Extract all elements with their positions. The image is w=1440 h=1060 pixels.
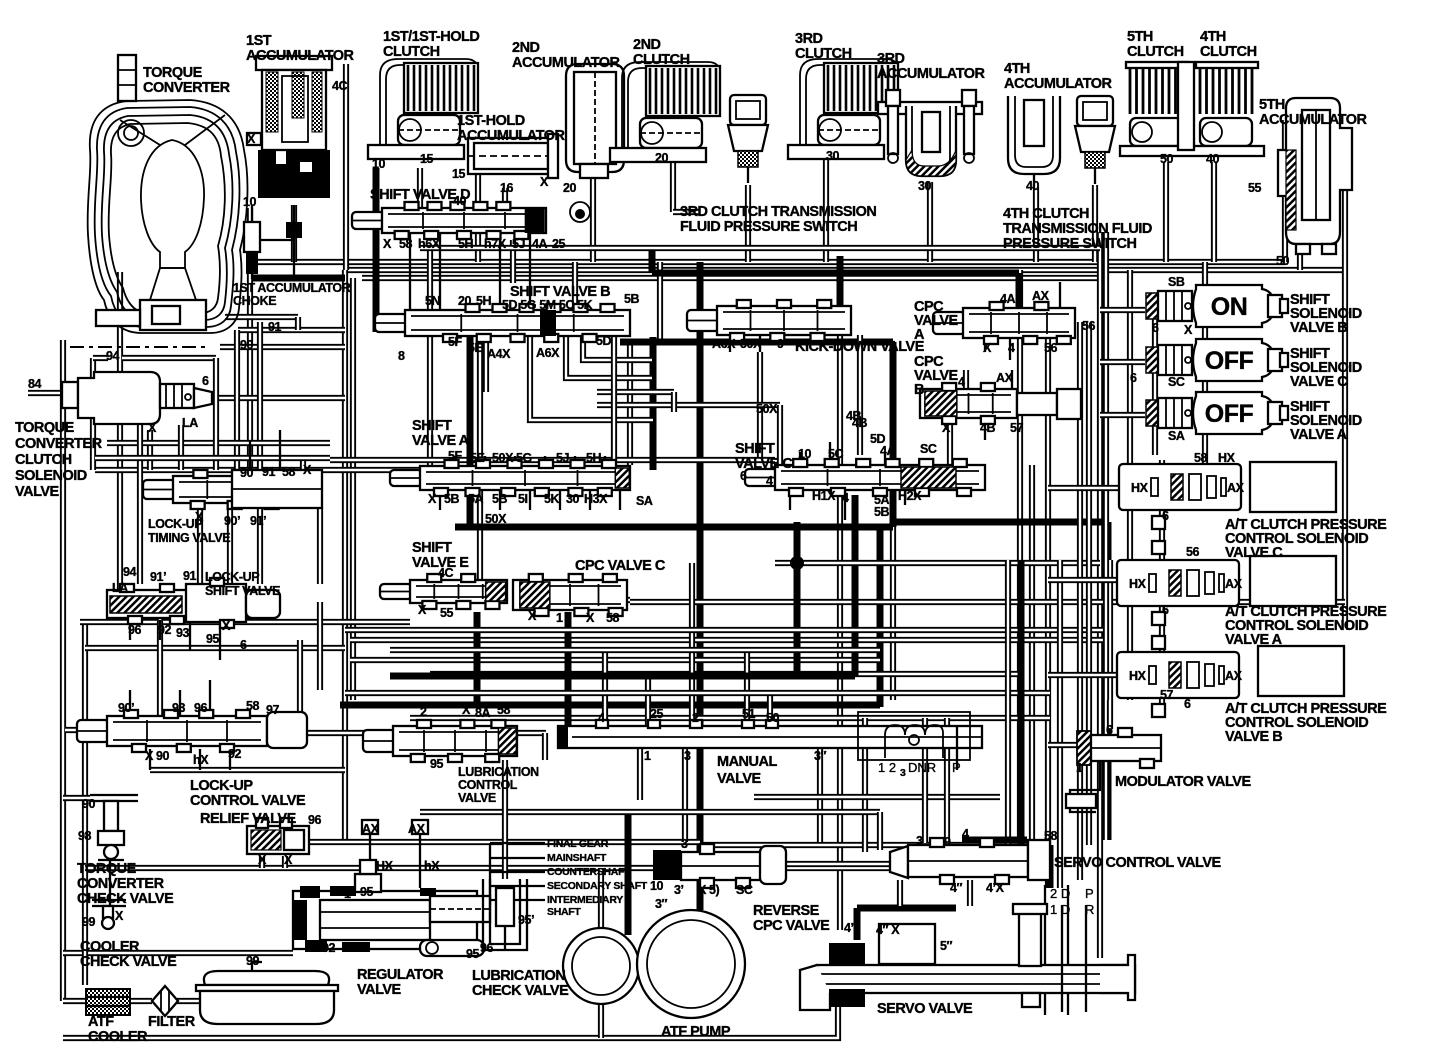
wire <box>350 278 356 700</box>
wire <box>137 423 143 470</box>
wire <box>475 172 481 262</box>
svg-text:84: 84 <box>28 377 42 391</box>
svg-text:h6X: h6X <box>418 237 441 251</box>
svg-text:HX: HX <box>376 859 394 873</box>
svg-text:ACCUMULATOR: ACCUMULATOR <box>457 128 566 144</box>
svg-text:30: 30 <box>918 179 932 193</box>
wire <box>85 865 890 871</box>
svg-text:5D: 5D <box>596 334 612 348</box>
wire <box>499 233 501 310</box>
wire <box>177 998 200 1004</box>
svg-text:VALVE: VALVE <box>458 791 496 805</box>
kick-down valve <box>687 300 851 341</box>
svg-text:3: 3 <box>916 834 923 848</box>
wire <box>829 442 831 465</box>
svg-text:VALVE: VALVE <box>717 771 762 787</box>
wire <box>1100 307 1145 313</box>
5th clutch <box>1126 62 1188 146</box>
wire <box>1017 270 1023 845</box>
svg-text:96: 96 <box>194 701 208 715</box>
svg-text:2: 2 <box>692 711 699 725</box>
wire <box>122 355 216 361</box>
reverse CPC valve <box>653 844 786 888</box>
svg-text:58: 58 <box>1194 451 1208 465</box>
wire <box>350 637 1110 643</box>
wire <box>295 317 301 330</box>
svg-text:HX: HX <box>1129 577 1147 591</box>
svg-text:25: 25 <box>552 237 566 251</box>
svg-text:REGULATOR: REGULATOR <box>357 967 444 983</box>
wire <box>137 470 143 584</box>
wire <box>409 233 411 310</box>
junction elbow 20 <box>570 202 590 222</box>
wire <box>65 727 107 733</box>
svg-text:LOCK-UP: LOCK-UP <box>190 778 253 794</box>
svg-text:20: 20 <box>458 294 472 308</box>
svg-text:SC: SC <box>1168 375 1185 389</box>
svg-text:ACCUMULATOR: ACCUMULATOR <box>1004 76 1113 92</box>
wire <box>620 339 893 346</box>
svg-text:HX: HX <box>1131 481 1149 495</box>
svg-text:4: 4 <box>1008 341 1015 355</box>
wire <box>1103 232 1109 840</box>
wire <box>390 647 880 653</box>
wire <box>179 690 181 716</box>
wire <box>857 905 956 912</box>
svg-text:4B: 4B <box>852 416 868 430</box>
svg-text:90: 90 <box>240 466 254 480</box>
svg-text:51: 51 <box>742 707 756 721</box>
svg-text:2ND: 2ND <box>512 40 540 56</box>
svg-text:1 2: 1 2 <box>878 760 896 775</box>
svg-text:1: 1 <box>1076 761 1083 775</box>
svg-text:TIMING VALVE: TIMING VALVE <box>148 531 230 545</box>
svg-text:2 D: 2 D <box>1050 886 1070 901</box>
wire <box>419 842 421 888</box>
svg-text:91’: 91’ <box>250 514 266 528</box>
wire <box>63 795 90 801</box>
svg-text:58: 58 <box>399 237 413 251</box>
wire <box>373 168 380 332</box>
wire <box>1029 465 1035 880</box>
svg-text:93: 93 <box>172 701 186 715</box>
wire <box>427 247 433 466</box>
wire <box>946 418 948 430</box>
wire <box>947 423 953 465</box>
svg-text:5″: 5″ <box>940 939 953 953</box>
wire <box>1047 845 1054 888</box>
svg-text:X: X <box>148 421 157 435</box>
filter <box>152 986 178 1016</box>
svg-text:ACCUMULATOR: ACCUMULATOR <box>1259 112 1368 128</box>
svg-text:SHIFT: SHIFT <box>735 441 775 457</box>
lubrication check valve <box>483 879 527 950</box>
svg-text:93: 93 <box>176 626 190 640</box>
wire <box>817 748 823 842</box>
svg-text:ON: ON <box>1211 293 1248 321</box>
svg-text:X: X <box>418 603 427 617</box>
svg-text:CPC VALVE C: CPC VALVE C <box>575 558 666 574</box>
svg-text:6: 6 <box>1106 723 1113 737</box>
regulator valve <box>293 860 490 956</box>
svg-text:REVERSE: REVERSE <box>753 903 820 919</box>
svg-text:6: 6 <box>1162 603 1169 617</box>
svg-text:CLUTCH: CLUTCH <box>1200 44 1257 60</box>
svg-text:VALVE: VALVE <box>15 484 60 500</box>
svg-text:MODULATOR VALVE: MODULATOR VALVE <box>1115 774 1251 790</box>
svg-text:95’: 95’ <box>518 913 534 927</box>
wire <box>689 563 695 726</box>
svg-text:56: 56 <box>1082 319 1096 333</box>
svg-text:40: 40 <box>453 194 467 208</box>
wire <box>291 205 297 262</box>
wire <box>502 760 508 879</box>
svg-text:FLUID PRESSURE SWITCH: FLUID PRESSURE SWITCH <box>680 219 857 235</box>
wire <box>922 718 928 843</box>
svg-text:TORQUE: TORQUE <box>143 65 203 81</box>
cooler check valve <box>92 900 126 929</box>
svg-text:4TH: 4TH <box>1200 29 1226 45</box>
svg-text:X: X <box>222 619 231 633</box>
wire <box>1100 359 1145 365</box>
svg-text:4’: 4’ <box>844 921 854 935</box>
wire <box>963 370 969 390</box>
svg-text:16: 16 <box>500 181 514 195</box>
svg-text:1 D: 1 D <box>1050 902 1070 917</box>
svg-text:96: 96 <box>480 941 494 955</box>
svg-text:57: 57 <box>1010 421 1024 435</box>
wire <box>345 627 1110 633</box>
wire <box>490 885 545 887</box>
svg-text:90: 90 <box>240 338 254 352</box>
wire <box>209 680 211 716</box>
wire <box>1163 162 1169 262</box>
wire <box>1342 188 1348 630</box>
svg-text:91: 91 <box>262 465 276 479</box>
wire <box>630 599 1345 605</box>
shift valve B <box>375 304 630 342</box>
ATF cooler <box>86 989 130 1015</box>
svg-text:SHIFT VALVE: SHIFT VALVE <box>205 584 280 598</box>
svg-text:3″: 3″ <box>814 749 827 763</box>
wire <box>454 456 456 466</box>
svg-text:AX: AX <box>1227 481 1245 495</box>
wire <box>1059 282 1061 308</box>
svg-text:92: 92 <box>158 623 172 637</box>
svg-text:B: B <box>914 382 924 398</box>
wire <box>490 871 545 873</box>
shift valve C <box>745 459 985 496</box>
wire <box>1211 162 1217 262</box>
svg-text:X: X <box>1184 323 1193 337</box>
svg-text:58: 58 <box>606 611 620 625</box>
wire <box>729 335 731 352</box>
wire <box>542 733 548 760</box>
wire <box>238 327 345 333</box>
svg-text:3: 3 <box>900 767 906 779</box>
wire <box>257 506 263 584</box>
svg-text:5A: 5A <box>468 492 484 506</box>
svg-text:VALVE C: VALVE C <box>1290 374 1348 390</box>
svg-text:40: 40 <box>1026 179 1040 193</box>
wire <box>63 998 86 1004</box>
wire <box>439 490 441 510</box>
wire <box>430 671 1020 677</box>
wire <box>1107 700 1113 729</box>
svg-text:91: 91 <box>268 320 282 334</box>
1st accumulator choke <box>244 205 345 278</box>
wire <box>645 676 651 726</box>
wire <box>904 490 906 505</box>
oil strainer pan <box>196 962 338 1024</box>
svg-text:95: 95 <box>430 757 444 771</box>
wire <box>1018 560 1025 845</box>
svg-text:P: P <box>1085 886 1094 901</box>
svg-text:58: 58 <box>497 703 511 717</box>
svg-text:1ST/1ST-HOLD: 1ST/1ST-HOLD <box>383 29 479 45</box>
servo valve <box>800 904 1135 1010</box>
svg-text:FINAL GEAR: FINAL GEAR <box>547 838 609 850</box>
wire <box>369 842 371 888</box>
wire <box>944 718 950 843</box>
wire <box>229 749 231 770</box>
wire <box>474 612 481 704</box>
wire <box>489 843 491 905</box>
svg-text:5J: 5J <box>556 451 570 465</box>
svg-text:VALVE A: VALVE A <box>1290 427 1348 443</box>
svg-text:3RD: 3RD <box>795 31 823 47</box>
svg-text:5K: 5K <box>544 492 560 506</box>
wire <box>317 508 323 584</box>
wire <box>837 256 844 310</box>
wire <box>877 812 883 850</box>
wire <box>1092 185 1098 262</box>
svg-text:56: 56 <box>1044 341 1058 355</box>
svg-text:COOLER: COOLER <box>88 1029 148 1045</box>
svg-text:X: X <box>284 853 293 867</box>
svg-text:5G: 5G <box>516 451 532 465</box>
svg-text:hX: hX <box>424 859 440 873</box>
shift valve E <box>380 574 507 609</box>
wire <box>117 272 123 618</box>
svg-text:COUNTERSHAFT: COUNTERSHAFT <box>547 866 631 878</box>
svg-text:4C: 4C <box>438 566 454 580</box>
wire <box>477 340 483 580</box>
svg-text:SHAFT: SHAFT <box>547 906 581 918</box>
svg-text:FILTER: FILTER <box>148 1014 196 1030</box>
svg-text:5H: 5H <box>586 451 602 465</box>
svg-text:97: 97 <box>266 703 280 717</box>
svg-text:LA: LA <box>112 581 128 595</box>
svg-text:4: 4 <box>842 491 849 505</box>
wire <box>759 335 761 352</box>
wire <box>250 839 700 845</box>
svg-text:20: 20 <box>655 151 669 165</box>
wire <box>574 456 576 466</box>
svg-text:5B: 5B <box>444 492 460 506</box>
wire <box>109 858 111 906</box>
4th clutch <box>1196 62 1258 146</box>
wire <box>93 355 108 361</box>
svg-text:4: 4 <box>766 474 773 488</box>
5th accumulator <box>1278 98 1352 254</box>
svg-text:90: 90 <box>82 797 96 811</box>
wire <box>469 490 471 510</box>
wire <box>890 342 897 527</box>
wire <box>745 185 751 262</box>
wire <box>598 868 604 928</box>
svg-text:X: X <box>383 237 392 251</box>
3rd clutch <box>788 59 898 159</box>
wire <box>157 618 163 716</box>
wire <box>566 336 652 378</box>
wire <box>862 718 868 852</box>
wire <box>637 748 643 800</box>
wire <box>1202 262 1208 470</box>
svg-text:91’: 91’ <box>150 570 166 584</box>
svg-text:5B: 5B <box>624 292 640 306</box>
svg-text:95: 95 <box>360 885 374 899</box>
svg-text:H2X: H2X <box>898 489 922 503</box>
wire <box>60 340 66 1001</box>
svg-text:VALVE: VALVE <box>357 982 402 998</box>
wire <box>590 178 596 262</box>
clutch base plate 5th/4th <box>1120 62 1264 156</box>
wire <box>844 490 846 520</box>
svg-text:DNR: DNR <box>908 760 936 775</box>
3rd accumulator <box>878 90 982 176</box>
svg-text:4C: 4C <box>332 79 348 93</box>
svg-text:CLUTCH: CLUTCH <box>1127 44 1184 60</box>
svg-text:5TH: 5TH <box>1127 29 1153 45</box>
svg-text:95: 95 <box>466 947 480 961</box>
gear position indicator 123DNRP <box>858 712 970 770</box>
svg-text:R: R <box>1085 902 1094 917</box>
wire <box>342 270 348 845</box>
svg-text:SB: SB <box>1168 275 1185 289</box>
svg-text:A6X: A6X <box>536 346 560 360</box>
svg-text:94: 94 <box>123 565 137 579</box>
wire <box>757 352 763 460</box>
svg-text:6: 6 <box>1152 321 1159 335</box>
svg-text:6: 6 <box>740 469 747 483</box>
svg-text:30: 30 <box>566 492 580 506</box>
1st/1st-hold clutch <box>368 59 478 159</box>
svg-text:AX: AX <box>362 822 380 836</box>
wire <box>178 425 184 470</box>
svg-text:50: 50 <box>766 711 780 725</box>
wire <box>673 209 700 215</box>
svg-text:CHECK VALVE: CHECK VALVE <box>472 983 569 999</box>
servo valve position lines <box>1062 905 1086 1012</box>
wire <box>297 640 303 716</box>
svg-text:15: 15 <box>452 167 466 181</box>
svg-text:4’X: 4’X <box>986 881 1005 895</box>
torque converter check valve <box>90 795 138 860</box>
solenoid feed connectors <box>1152 516 1165 717</box>
wire <box>234 330 240 470</box>
svg-text:5I: 5I <box>518 492 528 506</box>
wire <box>884 454 886 465</box>
svg-text:HX: HX <box>1218 451 1236 465</box>
wire <box>282 856 288 868</box>
wire <box>597 389 674 395</box>
wire <box>330 457 775 463</box>
svg-text:ACCUMULATOR: ACCUMULATOR <box>877 66 986 82</box>
svg-text:10: 10 <box>798 447 812 461</box>
svg-text:6: 6 <box>1162 509 1169 523</box>
wire <box>754 794 1000 800</box>
svg-text:5TH: 5TH <box>1259 97 1285 113</box>
wire <box>1048 485 1119 491</box>
wire <box>227 506 233 584</box>
svg-text:CPC VALVE: CPC VALVE <box>753 918 830 934</box>
wire <box>984 338 986 352</box>
wire <box>199 749 201 770</box>
wire <box>597 402 780 408</box>
wire <box>1097 232 1103 958</box>
manual valve <box>558 720 982 748</box>
svg-text:4A: 4A <box>1000 292 1016 306</box>
wire <box>670 150 676 212</box>
svg-text:10: 10 <box>243 195 257 209</box>
svg-text:3’: 3’ <box>674 883 684 897</box>
wire <box>1086 322 1092 845</box>
svg-text:SHIFT: SHIFT <box>412 540 452 556</box>
wire <box>63 1002 838 1038</box>
shift valve D <box>352 202 546 239</box>
wire <box>490 899 545 901</box>
relief valve <box>247 818 309 854</box>
svg-text:96: 96 <box>308 813 322 827</box>
wire <box>85 645 345 651</box>
wire <box>1057 560 1063 888</box>
wire <box>799 452 801 465</box>
svg-text:58: 58 <box>246 699 260 713</box>
svg-text:4″ X: 4″ X <box>876 923 900 937</box>
svg-text:5H: 5H <box>476 294 492 308</box>
wire <box>1045 322 1051 888</box>
wire <box>95 455 330 461</box>
wire <box>962 837 1027 844</box>
svg-text:AX: AX <box>1032 289 1050 303</box>
svg-text:VALVE C: VALVE C <box>1225 545 1283 561</box>
wire <box>455 524 893 531</box>
svg-text:10: 10 <box>372 157 386 171</box>
wire <box>657 262 663 342</box>
svg-text:VALVE A: VALVE A <box>1225 632 1283 648</box>
svg-text:2ND: 2ND <box>633 37 661 53</box>
wire <box>257 322 263 470</box>
svg-text:9: 9 <box>777 337 784 351</box>
svg-text:LUBRICATION: LUBRICATION <box>472 968 565 984</box>
svg-text:3: 3 <box>681 837 688 851</box>
svg-text:CONTROL VALVE: CONTROL VALVE <box>190 793 306 809</box>
wire <box>583 336 652 360</box>
svg-text:COOLER: COOLER <box>80 939 140 955</box>
wire <box>927 182 933 262</box>
4th clutch transmission fluid pressure switch <box>1075 96 1115 184</box>
svg-text:58: 58 <box>282 465 296 479</box>
svg-text:X: X <box>983 341 992 355</box>
svg-text:99: 99 <box>246 954 260 968</box>
wire <box>854 908 861 940</box>
svg-text:99: 99 <box>82 915 96 929</box>
svg-text:40: 40 <box>1206 152 1220 166</box>
svg-text:MANUAL: MANUAL <box>717 754 777 770</box>
svg-text:KICK-DOWN VALVE: KICK-DOWN VALVE <box>795 339 925 355</box>
wire <box>611 336 617 466</box>
